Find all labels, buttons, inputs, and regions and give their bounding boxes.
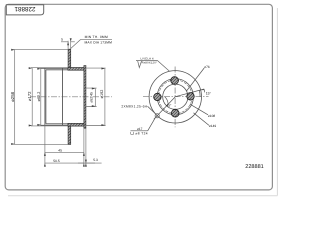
svg-text:⌀172: ⌀172: [28, 91, 33, 101]
svg-text:⌀149: ⌀149: [209, 125, 216, 129]
svg-text:⌀258: ⌀258: [11, 92, 16, 102]
svg-text:⌀52.45: ⌀52.45: [90, 92, 94, 103]
svg-text:⌀76: ⌀76: [204, 65, 210, 69]
svg-text:⌀108: ⌀108: [208, 114, 215, 118]
svg-text:LIVELA 4: LIVELA 4: [141, 57, 154, 60]
svg-text:R≤80X120°: R≤80X120°: [142, 62, 157, 65]
svg-text:⌀8 T24: ⌀8 T24: [135, 132, 147, 136]
svg-text:⌀62.2: ⌀62.2: [37, 91, 41, 101]
svg-text:MAX DIA 173MM: MAX DIA 173MM: [85, 41, 112, 45]
svg-text:45: 45: [58, 149, 62, 153]
svg-text:⌀192: ⌀192: [100, 90, 104, 99]
svg-text:5.3: 5.3: [93, 159, 98, 163]
svg-text:228881: 228881: [245, 163, 264, 169]
svg-text:228881: 228881: [14, 6, 35, 13]
svg-text:⌀17: ⌀17: [137, 127, 143, 131]
svg-text:2XM8X1,25-6H: 2XM8X1,25-6H: [121, 105, 147, 109]
svg-text:MIN TH. 8MM: MIN TH. 8MM: [85, 35, 108, 39]
svg-text:50.5: 50.5: [53, 159, 60, 163]
svg-text:5: 5: [61, 38, 63, 42]
svg-text:45°: 45°: [166, 104, 171, 108]
svg-text:15°: 15°: [206, 92, 211, 96]
